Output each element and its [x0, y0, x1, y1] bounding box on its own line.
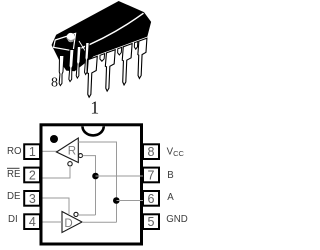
wire DE to driver enable — [43, 198, 70, 214]
wire receiver top input to A net — [78, 142, 116, 222]
pin box 8 — [143, 144, 159, 159]
back pin 8 — [58, 56, 64, 86]
wire B net to pin 7 — [96, 175, 144, 177]
svg-text:1: 1 — [29, 145, 36, 159]
wire /RE to enable bubble — [43, 166, 71, 178]
svg-text:7: 7 — [148, 168, 155, 182]
back pin 6 — [76, 47, 81, 79]
front pin 2 — [104, 50, 115, 91]
receiver inverting input bubble — [79, 154, 83, 158]
back pin 5 — [84, 43, 89, 75]
package notch (index mark) — [67, 33, 75, 42]
svg-text:3: 3 — [29, 192, 36, 206]
back pin 7 — [68, 50, 74, 82]
svg-text:DI: DI — [8, 214, 18, 225]
back pin stub between pins 3-4 — [134, 42, 138, 50]
svg-text:4: 4 — [29, 215, 36, 229]
pin box 5 — [143, 214, 159, 229]
pin box 3 — [24, 191, 40, 206]
pin box 2 — [24, 168, 40, 183]
package top/front edge highlight — [77, 13, 144, 50]
back pin stub between pins 1-2 — [100, 54, 105, 62]
DIP-8 package body — [52, 2, 151, 71]
svg-text:2: 2 — [29, 168, 36, 182]
pin box 1 — [24, 144, 40, 159]
front pin 1 — [86, 56, 97, 97]
pin 1 indicator dot — [50, 135, 58, 143]
wire DI to driver input — [43, 221, 63, 223]
wire receiver bubble to B net — [83, 156, 96, 215]
pin box 6 — [143, 191, 159, 206]
driver inverted output bubble — [74, 212, 78, 216]
svg-text:1: 1 — [90, 97, 99, 117]
svg-text:6: 6 — [148, 192, 155, 206]
IC body outline (pinout diagram) — [41, 125, 142, 244]
junction dot B net — [92, 173, 99, 180]
pin box 4 — [24, 214, 40, 229]
diagram notch — [83, 126, 104, 135]
package front bevel line — [79, 41, 86, 52]
wire driver bubble to B net — [78, 214, 95, 216]
svg-text:GND: GND — [166, 214, 188, 225]
svg-text:RE: RE — [7, 169, 21, 180]
front pin 4 — [137, 38, 147, 78]
svg-text:A: A — [167, 192, 174, 203]
wire A net to pin 6 — [117, 200, 144, 202]
svg-text:B: B — [167, 170, 173, 181]
svg-text:5: 5 — [148, 215, 155, 229]
svg-text:DE: DE — [7, 191, 21, 202]
svg-text:VCC: VCC — [167, 147, 185, 159]
svg-text:8: 8 — [51, 76, 58, 91]
receiver R triangle — [57, 138, 79, 163]
pin box 7 — [143, 168, 159, 183]
package left end face outline — [54, 33, 76, 50]
receiver enable bubble — [68, 162, 72, 166]
junction dot A net — [113, 197, 120, 204]
svg-text:D: D — [64, 218, 72, 230]
svg-text:RO: RO — [7, 146, 22, 157]
back pin stub between pins 2-3 — [117, 47, 121, 55]
driver D triangle — [62, 212, 82, 233]
svg-text:R: R — [68, 145, 76, 157]
svg-text:8: 8 — [148, 145, 155, 159]
wire driver output to A net — [82, 221, 117, 223]
wire RO to receiver output — [43, 150, 58, 152]
front pin 3 — [121, 44, 132, 85]
